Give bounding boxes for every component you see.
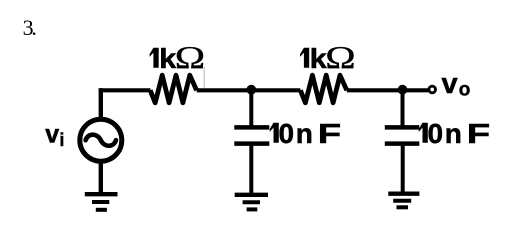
svg-text:F: F [318,119,341,150]
wire: vertical from corner down to source top [99,88,103,119]
svg-text:0: 0 [428,118,444,149]
label R1 ohm symbol [175,39,205,74]
voltage source V1 sine wave [86,135,116,146]
svg-text:Ω: Ω [175,39,205,74]
wire: R1 to node A [197,88,252,92]
svg-text:Ω: Ω [325,39,355,74]
svg-text:0: 0 [279,118,295,149]
ground 2 (under C1) [235,195,268,210]
ground 3 (under C2) [388,194,419,208]
voltage source V1 circle [80,119,122,161]
svg-text:v: v [442,68,458,100]
node B junction dot [398,85,408,95]
label R2 ohm symbol [325,39,355,74]
label R1 letter k [159,43,177,74]
wire: source bottom to ground 1 [99,161,103,194]
node A junction dot [246,85,256,95]
wire: node A to resistor R2 [251,88,300,92]
capacitor C1 (10nF) plates [234,127,269,143]
label C2 value: letter F [467,119,490,150]
svg-text:n: n [296,118,313,149]
svg-text:n: n [445,118,462,149]
wire: top rail from source corner to resistor R1 [99,88,151,92]
output terminal open circle [429,86,436,93]
label C1 value: digit 1 [270,123,279,143]
label R2 letter k [310,43,328,74]
resistor R2 (1k ohm zigzag) [300,75,346,103]
svg-text:.: . [31,15,37,40]
label R1 digit 1 [150,48,159,68]
capacitor C2 (10nF) plates [385,127,420,143]
svg-text:o: o [459,80,471,101]
wire: node B to output terminal [403,88,429,92]
wire: capacitor C1 to ground 2 [249,144,253,195]
wire: R2 to node B [347,88,403,92]
svg-text:F: F [467,119,490,150]
label C2 value: digit 1 [419,123,428,143]
label C1 value: letter F [318,119,341,150]
wire: capacitor C2 to ground 3 [401,144,405,194]
wire: node B down to capacitor C2 [401,90,405,128]
label R2 digit 1 [300,48,309,68]
wire: node A down to capacitor C1 [249,90,253,128]
svg-text:i: i [59,130,64,150]
ground 1 (under source) [85,194,118,210]
artifact faint vertical line near R1 [203,67,205,88]
resistor R1 (1k ohm zigzag) [150,75,196,103]
svg-text:v: v [45,120,59,148]
